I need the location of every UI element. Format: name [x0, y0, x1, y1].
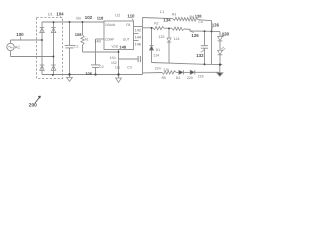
svg-text:102: 102 — [85, 15, 93, 20]
svg-text:132: 132 — [196, 53, 204, 58]
svg-text:144: 144 — [135, 35, 141, 39]
svg-text:134: 134 — [163, 17, 171, 22]
svg-text:L1: L1 — [160, 9, 164, 14]
svg-text:R1: R1 — [85, 38, 89, 42]
svg-text:151: 151 — [115, 65, 121, 69]
svg-text:D2: D2 — [176, 76, 180, 80]
svg-text:D1: D1 — [156, 48, 160, 52]
svg-text:118: 118 — [97, 16, 104, 21]
svg-text:216: 216 — [163, 68, 169, 72]
svg-text:106: 106 — [85, 71, 92, 76]
svg-text:126: 126 — [191, 33, 199, 38]
svg-text:122: 122 — [158, 35, 164, 39]
svg-text:124: 124 — [174, 37, 180, 41]
svg-text:C3: C3 — [127, 65, 132, 69]
svg-text:100: 100 — [16, 32, 24, 37]
svg-text:OUT: OUT — [123, 38, 130, 42]
svg-text:C1: C1 — [74, 45, 79, 49]
svg-text:142: 142 — [135, 28, 141, 32]
svg-text:U1: U1 — [48, 12, 53, 17]
svg-text:150: 150 — [110, 56, 116, 60]
svg-text:218: 218 — [198, 75, 204, 79]
svg-text:140: 140 — [94, 40, 100, 44]
svg-text:C2: C2 — [99, 65, 104, 69]
svg-text:VDD: VDD — [111, 45, 118, 49]
svg-text:C4: C4 — [198, 20, 202, 24]
svg-text:146: 146 — [135, 42, 141, 46]
svg-text:AC: AC — [15, 45, 21, 50]
svg-text:R5: R5 — [162, 76, 166, 80]
svg-text:110: 110 — [127, 14, 135, 19]
svg-text:R4: R4 — [190, 15, 194, 19]
svg-text:R2: R2 — [154, 21, 158, 25]
svg-text:U2: U2 — [115, 13, 120, 18]
svg-text:138: 138 — [195, 14, 202, 19]
svg-text:130: 130 — [222, 31, 230, 36]
svg-text:R3: R3 — [172, 13, 176, 17]
svg-text:220: 220 — [187, 76, 193, 80]
svg-text:200: 200 — [29, 103, 37, 109]
svg-text:136: 136 — [212, 22, 220, 27]
svg-text:DRAIN: DRAIN — [105, 23, 116, 27]
svg-text:108: 108 — [75, 32, 82, 37]
svg-text:Vin: Vin — [76, 16, 82, 21]
svg-text:104: 104 — [56, 12, 64, 17]
svg-text:COMP: COMP — [105, 38, 115, 42]
svg-text:FB: FB — [126, 23, 130, 27]
svg-text:224: 224 — [155, 66, 161, 70]
svg-text:148: 148 — [119, 45, 126, 50]
svg-text:214: 214 — [153, 53, 159, 57]
